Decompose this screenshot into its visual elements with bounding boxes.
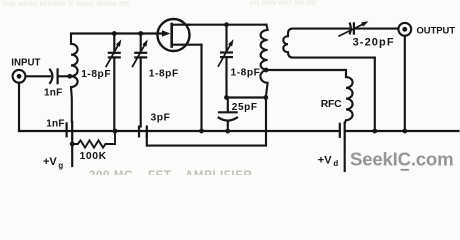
node trimmer C3 top xyxy=(138,31,143,36)
svg-text:+V: +V xyxy=(318,154,332,166)
svg-text:1-8pF: 1-8pF xyxy=(231,68,261,79)
label +Vg xyxy=(43,156,63,170)
svg-text:INPUT: INPUT xyxy=(11,57,40,68)
node source/rail xyxy=(199,129,204,134)
trimmer capacitor C4 1-8pF xyxy=(218,25,233,98)
node A (gate coil tap junction) xyxy=(67,74,72,79)
svg-text:AMPLIFIER: AMPLIFIER xyxy=(185,170,252,175)
svg-text:3-20pF: 3-20pF xyxy=(353,36,395,48)
svg-text:+V: +V xyxy=(43,156,57,168)
node R1 top / rail xyxy=(113,129,118,134)
wire lower loop (3pF return) xyxy=(147,98,266,146)
wire source down xyxy=(200,45,202,131)
node output/rail xyxy=(402,129,407,134)
svg-text:3pF: 3pF xyxy=(151,113,171,124)
svg-text:200 MC: 200 MC xyxy=(89,170,133,175)
wire link return down xyxy=(374,58,376,131)
node 25pF/rail xyxy=(225,129,230,134)
svg-text:g: g xyxy=(58,161,63,170)
svg-text:OUTPUT: OUTPUT xyxy=(417,24,456,35)
wire input to C1 xyxy=(26,75,50,77)
faint top page text residue xyxy=(2,0,316,8)
svg-text:100K: 100K xyxy=(80,151,107,162)
wire input shield down xyxy=(18,83,20,131)
trimmer capacitor C2 1-8pF xyxy=(106,34,121,132)
svg-text:SeekIC.com: SeekIC.com xyxy=(350,148,453,169)
wire output down xyxy=(404,36,406,131)
svg-text:d: d xyxy=(333,159,338,168)
wire drain rail xyxy=(189,24,266,26)
svg-text:RFC: RFC xyxy=(321,99,342,110)
svg-text:1nF: 1nF xyxy=(46,119,64,130)
node L2 tap xyxy=(264,68,269,73)
wire C4 bottom to coil bottom xyxy=(227,96,266,98)
watermark underline mark xyxy=(402,169,409,171)
label +Vd xyxy=(318,154,339,168)
wire bottom rail (right of C7) xyxy=(345,130,459,132)
capacitor C9 3pF xyxy=(139,127,147,137)
resistor R1 100K xyxy=(72,131,115,148)
capacitor C7 (bypass in bottom rail) xyxy=(340,123,345,138)
transistor Q1 JFET xyxy=(158,19,202,51)
wire Vg feed down xyxy=(71,138,73,166)
wire gate rail xyxy=(71,32,163,34)
node trimmer C2 top xyxy=(112,31,117,36)
INPUT terminal J1 xyxy=(13,70,26,83)
variable capacitor C6 3-20pF xyxy=(339,21,398,36)
wire bottom rail (left of C7) xyxy=(19,130,340,132)
OUTPUT terminal J2 xyxy=(398,23,411,36)
capacitor C8 1nF (Vg bypass) xyxy=(67,122,73,138)
capacitor C1 1nF (coupling) xyxy=(50,69,70,83)
node Vg / R1 junction xyxy=(70,142,75,147)
node C4/C5 junction xyxy=(224,95,229,100)
node link return/rail xyxy=(372,129,377,134)
svg-text:FET: FET xyxy=(148,170,172,175)
svg-text:1-8pF: 1-8pF xyxy=(149,69,179,80)
node C4 top xyxy=(224,22,229,27)
trimmer capacitor C3 1-8pF xyxy=(133,34,148,127)
svg-text:vn mrv wvr nv mr: vn mrv wvr nv mr xyxy=(250,0,316,7)
svg-text:1-8pF: 1-8pF xyxy=(81,69,111,80)
inductor L2 (drain tank coil) xyxy=(260,25,267,98)
svg-text:1nF: 1nF xyxy=(44,88,62,99)
faint caption 200 MC FET AMPLIFIER (cut off) xyxy=(89,170,252,182)
node coil L2 bottom xyxy=(263,95,268,100)
capacitor C5 25pF xyxy=(219,98,237,132)
inductor RFC xyxy=(345,77,353,123)
svg-text:mw wrrm nrmmv tr wvm mmw: mw wrrm nrmmv tr wvm mmw rm xyxy=(2,0,129,8)
wire +Vd feed down xyxy=(344,138,346,171)
wire tap to RFC xyxy=(266,70,346,77)
inductor L3 (output link) xyxy=(283,29,375,58)
inductor L1 (gate tank coil) xyxy=(71,34,78,123)
svg-text:25pF: 25pF xyxy=(232,102,258,113)
